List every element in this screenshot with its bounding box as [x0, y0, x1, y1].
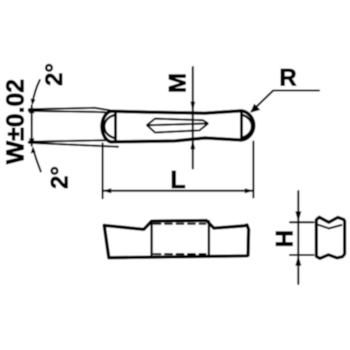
right cap vertical edge — [240, 111, 243, 140]
L arrowhead right — [245, 188, 254, 193]
L extension right — [252, 142, 254, 198]
svg-text:W±0.02: W±0.02 — [3, 79, 30, 164]
right cap inner arc — [241, 115, 252, 138]
W arrowhead down — [29, 138, 35, 145]
waist lower facet line — [147, 124, 207, 133]
L arrowhead left — [103, 188, 112, 193]
waist upper facet line — [147, 119, 207, 125]
H extension top — [290, 221, 314, 223]
H arrowhead down — [295, 211, 301, 222]
2deg bottom leader — [33, 149, 41, 172]
wedge line bottom B — [29, 140, 105, 141]
wedge line top A (2 deg) — [29, 108, 110, 110]
H arrowhead up — [295, 255, 301, 266]
front view right divider — [208, 221, 210, 257]
svg-text:L: L — [170, 166, 185, 194]
waist middle line — [147, 124, 207, 126]
M arrowhead down — [190, 102, 195, 113]
H dimension line — [297, 191, 299, 284]
M arrowhead up — [190, 139, 195, 150]
H extension bottom — [290, 254, 314, 256]
R leader arrowhead — [250, 104, 260, 113]
2deg top leader — [32, 80, 39, 103]
2deg top leader arrowhead — [31, 98, 36, 105]
svg-text:2°: 2° — [41, 63, 68, 86]
W dimension line — [31, 106, 33, 146]
left cap inner arc — [104, 115, 115, 138]
svg-text:H: H — [271, 230, 298, 247]
front view hidden line bottom — [154, 253, 206, 255]
side view outline — [316, 217, 344, 258]
side view inner V groove — [318, 225, 341, 229]
svg-text:2°: 2° — [47, 166, 74, 189]
insert outline (top view stadium) — [102, 111, 254, 142]
R leader — [252, 91, 320, 112]
L extension left — [102, 144, 104, 199]
L dimension line — [103, 190, 254, 192]
svg-text:R: R — [279, 65, 296, 92]
2deg bottom leader arrowhead — [31, 146, 36, 153]
W arrowhead up — [29, 106, 35, 113]
wedge line bottom A (2 deg) — [29, 143, 118, 147]
svg-text:M: M — [165, 73, 192, 93]
left cap vertical edge — [114, 111, 117, 141]
wedge line top B — [29, 111, 105, 112]
front view left divider — [150, 222, 152, 258]
M dimension line — [192, 67, 194, 169]
front view outline — [104, 221, 248, 258]
front view hidden line top — [154, 223, 206, 225]
